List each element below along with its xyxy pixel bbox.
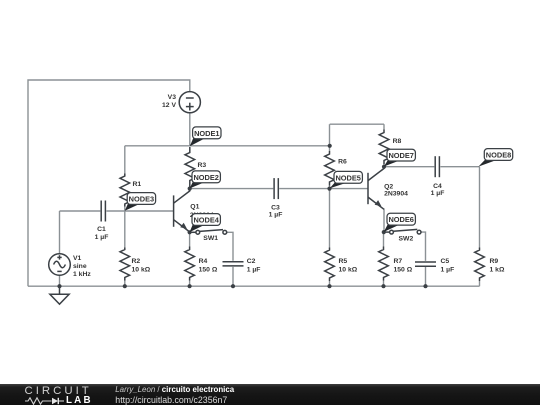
svg-text:R2: R2 [132,258,141,265]
svg-text:SW1: SW1 [203,235,218,242]
svg-text:150 Ω: 150 Ω [394,267,413,274]
svg-text:R3: R3 [198,162,207,169]
svg-text:2N3904: 2N3904 [384,191,408,198]
svg-text:1 µF: 1 µF [431,190,445,197]
svg-text:R7: R7 [394,258,403,265]
svg-text:NODE2: NODE2 [193,173,218,182]
svg-text:C5: C5 [441,258,450,265]
svg-text:C3: C3 [271,204,280,211]
svg-text:NODE3: NODE3 [129,195,154,204]
svg-text:C4: C4 [433,183,442,190]
svg-text:sine: sine [73,263,87,270]
svg-text:R9: R9 [490,258,499,265]
svg-text:1 kΩ: 1 kΩ [490,267,505,274]
svg-text:Q1: Q1 [190,204,199,211]
svg-text:NODE7: NODE7 [388,151,413,160]
svg-text:10 kΩ: 10 kΩ [339,267,358,274]
svg-text:NODE4: NODE4 [193,216,219,225]
svg-text:1 µF: 1 µF [95,234,109,241]
svg-text:1 µF: 1 µF [441,267,455,274]
svg-text:V3: V3 [168,94,177,101]
svg-text:1 µF: 1 µF [247,267,261,274]
svg-text:R5: R5 [339,258,348,265]
svg-text:150 Ω: 150 Ω [199,267,218,274]
svg-text:R8: R8 [393,138,402,145]
svg-text:1 µF: 1 µF [269,212,283,219]
svg-text:1 kHz: 1 kHz [73,271,91,278]
svg-text:C1: C1 [97,226,106,233]
svg-text:R6: R6 [338,159,347,166]
svg-text:NODE1: NODE1 [194,129,219,138]
svg-text:12 V: 12 V [162,102,176,109]
svg-text:Q2: Q2 [384,184,393,191]
svg-text:NODE8: NODE8 [486,151,511,160]
svg-text:SW2: SW2 [399,236,414,243]
svg-text:V1: V1 [73,255,82,262]
svg-text:R4: R4 [199,258,208,265]
svg-text:10 kΩ: 10 kΩ [132,267,151,274]
svg-text:NODE5: NODE5 [335,173,360,182]
svg-text:R1: R1 [133,181,142,188]
svg-text:NODE6: NODE6 [388,215,413,224]
svg-text:C2: C2 [247,258,256,265]
